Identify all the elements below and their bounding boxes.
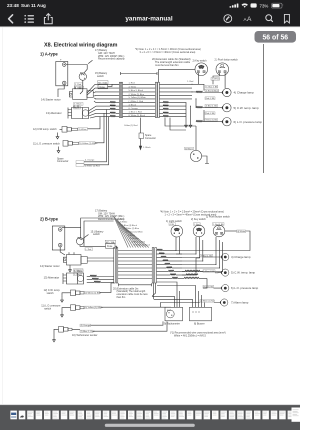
alarm lamp 7 (B)	[220, 299, 249, 306]
spare connector mid (A)	[139, 118, 156, 140]
alternator 13 (A)	[46, 105, 89, 118]
svg-text:5) Yellow (1) White: 5) Yellow (1) White	[85, 306, 104, 309]
wire label 4. Black (A starter)	[74, 103, 84, 110]
wire label 2) White (A push)	[211, 73, 225, 88]
battery switch 15 (B)	[76, 230, 104, 245]
svg-text:5) C.W. temp. lamp: 5) C.W. temp. lamp	[231, 271, 256, 275]
battery 17 (A)	[56, 59, 68, 86]
extension cable dimension and note (B)	[113, 283, 152, 299]
svg-text:Yellow (1) Red: Yellow (1) Red	[124, 125, 138, 127]
svg-text:1) Push button switch: 1) Push button switch	[206, 215, 230, 218]
svg-text:2) Red 4) Black: 2) Red 4) Black	[206, 90, 219, 92]
subheading 2) B-type	[40, 217, 59, 222]
svg-text:4. Black: 4. Black	[74, 104, 83, 106]
battery 17 note text (B)	[95, 210, 125, 221]
svg-text:1. Black: 1. Black	[143, 147, 152, 149]
svg-text:4. Black: 4. Black	[129, 104, 137, 106]
battery switch 15 (A)	[79, 60, 108, 80]
svg-text:2) Blue 1. Red: 2) Blue 1. Red	[81, 331, 95, 333]
svg-text:than 6m: than 6m	[117, 296, 126, 299]
svg-text:4) Charge lamp: 4) Charge lamp	[234, 91, 255, 95]
wire label 4) White (B push)	[225, 230, 246, 233]
right-edge vertical wire (A)	[263, 44, 265, 173]
tachometer 9 box (B)	[164, 305, 183, 326]
svg-text:14) Starter motor: 14) Starter motor	[41, 98, 61, 102]
svg-text:(.) White 1. Red: (.) White 1. Red	[129, 100, 144, 103]
svg-text:switch: switch	[97, 75, 105, 78]
grounds below lamps wiring (A)	[185, 121, 192, 127]
svg-text:1. Red: 1. Red	[75, 84, 82, 86]
svg-text:4. Blue 4. Blk: 4. Blue 4. Blk	[206, 86, 217, 88]
toolbar search icon	[266, 15, 273, 22]
ground under L.O pressure switch (B)	[61, 308, 71, 317]
svg-text:7) Alarm lamp: 7) Alarm lamp	[231, 301, 249, 305]
wire harness from components into left strip (A)	[87, 84, 119, 118]
svg-text:L.Blue 4. Blk: L.Blue 4. Blk	[204, 271, 215, 273]
battery 17 (B)	[52, 226, 65, 250]
svg-text:AMP: AMP	[167, 309, 172, 312]
toolbar text-size AA icon	[244, 16, 253, 23]
svg-text:23:48: 23:48	[7, 3, 19, 8]
svg-text:Recommended capacity: Recommended capacity	[98, 58, 125, 61]
svg-text:1. Red 4. Blk: 1. Red 4. Blk	[213, 224, 223, 226]
svg-text:2) B-type: 2) B-type	[40, 217, 59, 222]
right connector strip (A)	[155, 69, 195, 117]
lamp feed wires and labels (B)	[182, 254, 222, 302]
tachometer sender 10 (B)	[59, 327, 98, 337]
wires above tach and buzzer boxes (B)	[152, 282, 205, 305]
svg-text:13) Alternator: 13) Alternator	[46, 111, 62, 115]
wire label 1) White (A cw)	[78, 117, 100, 131]
fuse MC/30A (B)	[105, 240, 117, 248]
ground under tach sender (B)	[53, 329, 59, 342]
svg-text:switch: switch	[47, 292, 55, 295]
recommended wire note (bottom right)	[170, 332, 226, 338]
svg-text:6) L.O. pressure lamp: 6) L.O. pressure lamp	[231, 286, 259, 290]
starter motor 14 (A)	[41, 87, 93, 102]
svg-text:8) White (1) Black: 8) White (1) Black	[134, 244, 151, 247]
wire label 5) Yellow (1) White (B lo)	[85, 306, 161, 309]
note 20 extension cable (A)	[152, 58, 191, 67]
C.W. temp lamp 5 (A)	[222, 104, 259, 112]
svg-text:1) A-type: 1) A-type	[40, 52, 58, 57]
svg-text:4) Orange: 4) Orange	[81, 325, 91, 327]
svg-text:1) White: 1) White	[79, 128, 88, 131]
svg-text:Yellow (1) Blk: Yellow (1) Blk	[206, 120, 218, 122]
svg-text:MC / 30A: MC / 30A	[106, 241, 115, 244]
buzzer 8 box (B)	[190, 305, 212, 326]
ground under C.W. temp switch (B)	[61, 293, 68, 302]
svg-text:X8. Electrical wiring diagram: X8. Electrical wiring diagram	[44, 43, 118, 49]
svg-text:L. Red: L. Red	[86, 249, 92, 251]
svg-text:Red 4. Blk: Red 4. Blk	[206, 113, 215, 115]
left connector strip (A)	[119, 82, 122, 117]
wire battery to switch and top feed (A)	[58, 65, 87, 98]
svg-text:Sun 11 Aug: Sun 11 Aug	[21, 3, 46, 8]
heading X8. Electrical wiring diagram	[44, 43, 118, 49]
wire rows between connector strips (A)	[123, 83, 156, 117]
toolbar contents list icon	[24, 15, 34, 23]
svg-text:9) Tachometer: 9) Tachometer	[164, 323, 180, 326]
ground wire 1) Black mid (A)	[139, 139, 151, 150]
svg-text:8. White (1) Black: 8. White (1) Black	[129, 114, 146, 117]
extension cable bracket (A)	[121, 72, 158, 75]
junction risers below strip (A)	[159, 102, 196, 131]
note *4 wire size (B)	[160, 211, 224, 217]
svg-text:2. White (1) Blue: 2. White (1) Blue	[129, 93, 145, 96]
toolbar title	[125, 16, 172, 23]
battery 17 note text (A)	[95, 49, 125, 60]
wire label Yellow (1) Red (A)	[124, 125, 138, 127]
home indicator	[105, 424, 195, 427]
svg-text:6) L.O. pressure lamp: 6) L.O. pressure lamp	[234, 120, 263, 124]
svg-text:2) White (1) Red: 2) White (1) Red	[201, 300, 215, 303]
svg-text:12) C/W temp. switch: 12) C/W temp. switch	[33, 128, 57, 131]
wire labels 4) Orange / 2) Blue 1. Red (B sender)	[72, 321, 167, 333]
alternator wires with crimps (B)	[74, 270, 114, 283]
wire label 2) White (1) Blue (B cw)	[85, 283, 114, 294]
wire from 4) White box down to row (B)	[246, 231, 250, 233]
status bar background	[0, 0, 300, 27]
svg-text:1. Red: 1. Red	[187, 81, 193, 83]
svg-text:4) Black: 4) Black	[128, 235, 136, 237]
status bar right icons: signal, wifi, vpn, battery 73%	[230, 3, 284, 8]
svg-text:must be less than 6m: must be less than 6m	[155, 64, 179, 67]
svg-text:2.) Push button switch: 2.) Push button switch	[215, 58, 239, 61]
toolbar bookmark icon	[284, 14, 289, 23]
key switch 2 (A)	[187, 60, 207, 85]
svg-text:4) Charge lamp: 4) Charge lamp	[231, 255, 251, 259]
toolbar share icon	[44, 14, 52, 24]
svg-text:yanmar-manual: yanmar-manual	[125, 16, 172, 23]
L.O pressure switch 11 (B)	[41, 305, 84, 311]
svg-text:4) White: 4) White	[237, 230, 246, 233]
svg-text:Red 4. Blk: Red 4. Blk	[206, 98, 215, 100]
diagonal wire fan with labels (B)	[114, 216, 151, 248]
C/W temp switch 12 (A)	[33, 127, 78, 133]
svg-text:White = AV1.25(Min.) = AV0.5: White = AV1.25(Min.) = AV0.5	[174, 335, 206, 338]
charge lamp 4 (B)	[203, 253, 251, 260]
wire labels boxes near lamps (A)	[205, 89, 219, 121]
toolbar pencil-circle icon	[224, 15, 232, 23]
switch header labels (B)	[166, 215, 230, 222]
spare connector bottom-left (A)	[57, 110, 109, 168]
svg-text:5) C.W. temp. lamp: 5) C.W. temp. lamp	[234, 106, 260, 110]
riser wires to switches and lamps (B)	[176, 233, 250, 272]
L.O pressure switch 11 (A)	[33, 141, 79, 147]
svg-text:6. Orange: 6. Orange	[129, 107, 139, 110]
page thumbnails strip	[10, 411, 294, 420]
charge lamp 4 (A)	[222, 88, 254, 96]
svg-text:2) Key switch: 2) Key switch	[191, 218, 206, 221]
page indicator pill 56 of 56	[255, 31, 297, 43]
note *4 wire size (A)	[135, 48, 201, 54]
svg-text:5) Yellow (1) White: 5) Yellow (1) White	[126, 231, 144, 234]
wire rows between strips (B)	[118, 251, 152, 279]
toolbar back chevron	[9, 15, 13, 23]
push button switch 1 (A)	[215, 58, 239, 75]
fuse MC/30A (A)	[98, 81, 120, 89]
wire labels under battery switch (A)	[74, 83, 84, 89]
key switch 2 (B)	[193, 225, 205, 237]
L.O. pressure lamp 6 (A)	[222, 118, 262, 126]
ground under L.O pressure switch (A)	[57, 147, 60, 153]
bottom thumbnail bar background	[0, 405, 300, 430]
alternator 13 (B)	[44, 273, 84, 284]
svg-text:73%: 73%	[260, 3, 269, 8]
svg-text:4. Blk: 4. Blk	[170, 224, 175, 226]
svg-text:4. Orange: 4. Orange	[85, 159, 95, 162]
subheading 1) A-type	[40, 52, 58, 57]
svg-text:13) Alternator: 13) Alternator	[44, 276, 60, 280]
svg-text:2) White (1) Blue: 2) White (1) Blue	[85, 291, 102, 294]
svg-text:MC / 30A: MC / 30A	[98, 81, 107, 84]
svg-text:switch: switch	[93, 233, 101, 236]
wire label 4. Black / L. Red (B starter)	[74, 269, 84, 276]
C.W. temp lamp 5 (B)	[221, 269, 255, 276]
L.O. pressure lamp 6 (B)	[221, 285, 258, 292]
svg-text:2) White: 2) White	[120, 221, 129, 224]
C.W. temp switch 12 (B)	[44, 289, 84, 295]
svg-text:5) Yellow (1) White: 5) Yellow (1) White	[80, 142, 99, 145]
svg-text:4) Black: 4) Black	[185, 148, 194, 150]
current page enlarged thumbnail	[292, 408, 301, 422]
svg-text:5. Blue 3. Black: 5. Blue 3. Black	[129, 90, 144, 92]
svg-text:2) Blue 4. Blk: 2) Blue 4. Blk	[206, 106, 217, 108]
svg-text:56 of 56: 56 of 56	[262, 35, 288, 42]
starter motor 14 (B)	[40, 252, 114, 267]
push button switch 1 (B)	[213, 225, 225, 237]
svg-text:11) L.O. pressure switch: 11) L.O. pressure switch	[33, 142, 60, 145]
svg-text:6) Orange: 6) Orange	[130, 237, 140, 240]
svg-text:Fuse: Fuse	[107, 245, 113, 248]
svg-text:Connector: Connector	[145, 137, 156, 140]
wires right of right strip with crimps (B)	[157, 249, 182, 278]
svg-text:1) Light switch: 1) Light switch	[166, 220, 182, 223]
svg-text:2) Blue 1) Red: 2) Blue 1) Red	[132, 241, 146, 243]
tachometer 9 (A)	[185, 126, 210, 164]
svg-text:2) White (1) Blue: 2) White (1) Blue	[124, 227, 140, 230]
svg-text:8) Buzzer: 8) Buzzer	[194, 323, 205, 326]
wires strip to lamps (A)	[159, 84, 222, 122]
wire label 5) Yellow (A lo)	[79, 113, 104, 145]
wire labels above switches (B)	[169, 223, 224, 226]
svg-text:14) Starter motor: 14) Starter motor	[40, 264, 60, 268]
svg-text:A: A	[247, 16, 252, 23]
status bar clock text	[7, 3, 46, 8]
svg-text:3 + 4 + 6 = < 2.5mm² = 40mm² (: 3 + 4 + 6 = < 2.5mm² = 40mm² (Cross sect…	[140, 51, 196, 54]
right connector strip (B)	[152, 248, 156, 284]
svg-text:1) Red: 1) Red	[118, 218, 125, 220]
svg-text:L. Black: L. Black	[75, 271, 84, 273]
svg-text:1. Blue 1. Red: 1. Blue 1. Red	[129, 112, 143, 114]
wire battery to switch to fuse (B)	[60, 218, 113, 255]
svg-text:1. Red: 1. Red	[129, 83, 136, 85]
svg-text:Connector: Connector	[57, 160, 69, 163]
ground under starter (B)	[69, 265, 72, 272]
svg-text:3) Blue (4) Black: 3) Blue (4) Black	[122, 225, 138, 227]
left connector strip (B)	[114, 248, 118, 284]
ground under C/W temp switch (A)	[56, 133, 59, 139]
svg-text:5. Yellow (1) White: 5. Yellow (1) White	[129, 96, 147, 99]
svg-text:2) Key switch: 2) Key switch	[193, 60, 208, 63]
svg-text:4. White: 4. White	[129, 85, 137, 88]
wavy run row 8 (B)	[161, 274, 221, 308]
light switch 1 (B)	[171, 225, 183, 237]
svg-text:10) Tachometer sender: 10) Tachometer sender	[72, 334, 98, 337]
svg-text:switch: switch	[44, 307, 52, 310]
wire label box row 2 (A)	[206, 85, 218, 88]
